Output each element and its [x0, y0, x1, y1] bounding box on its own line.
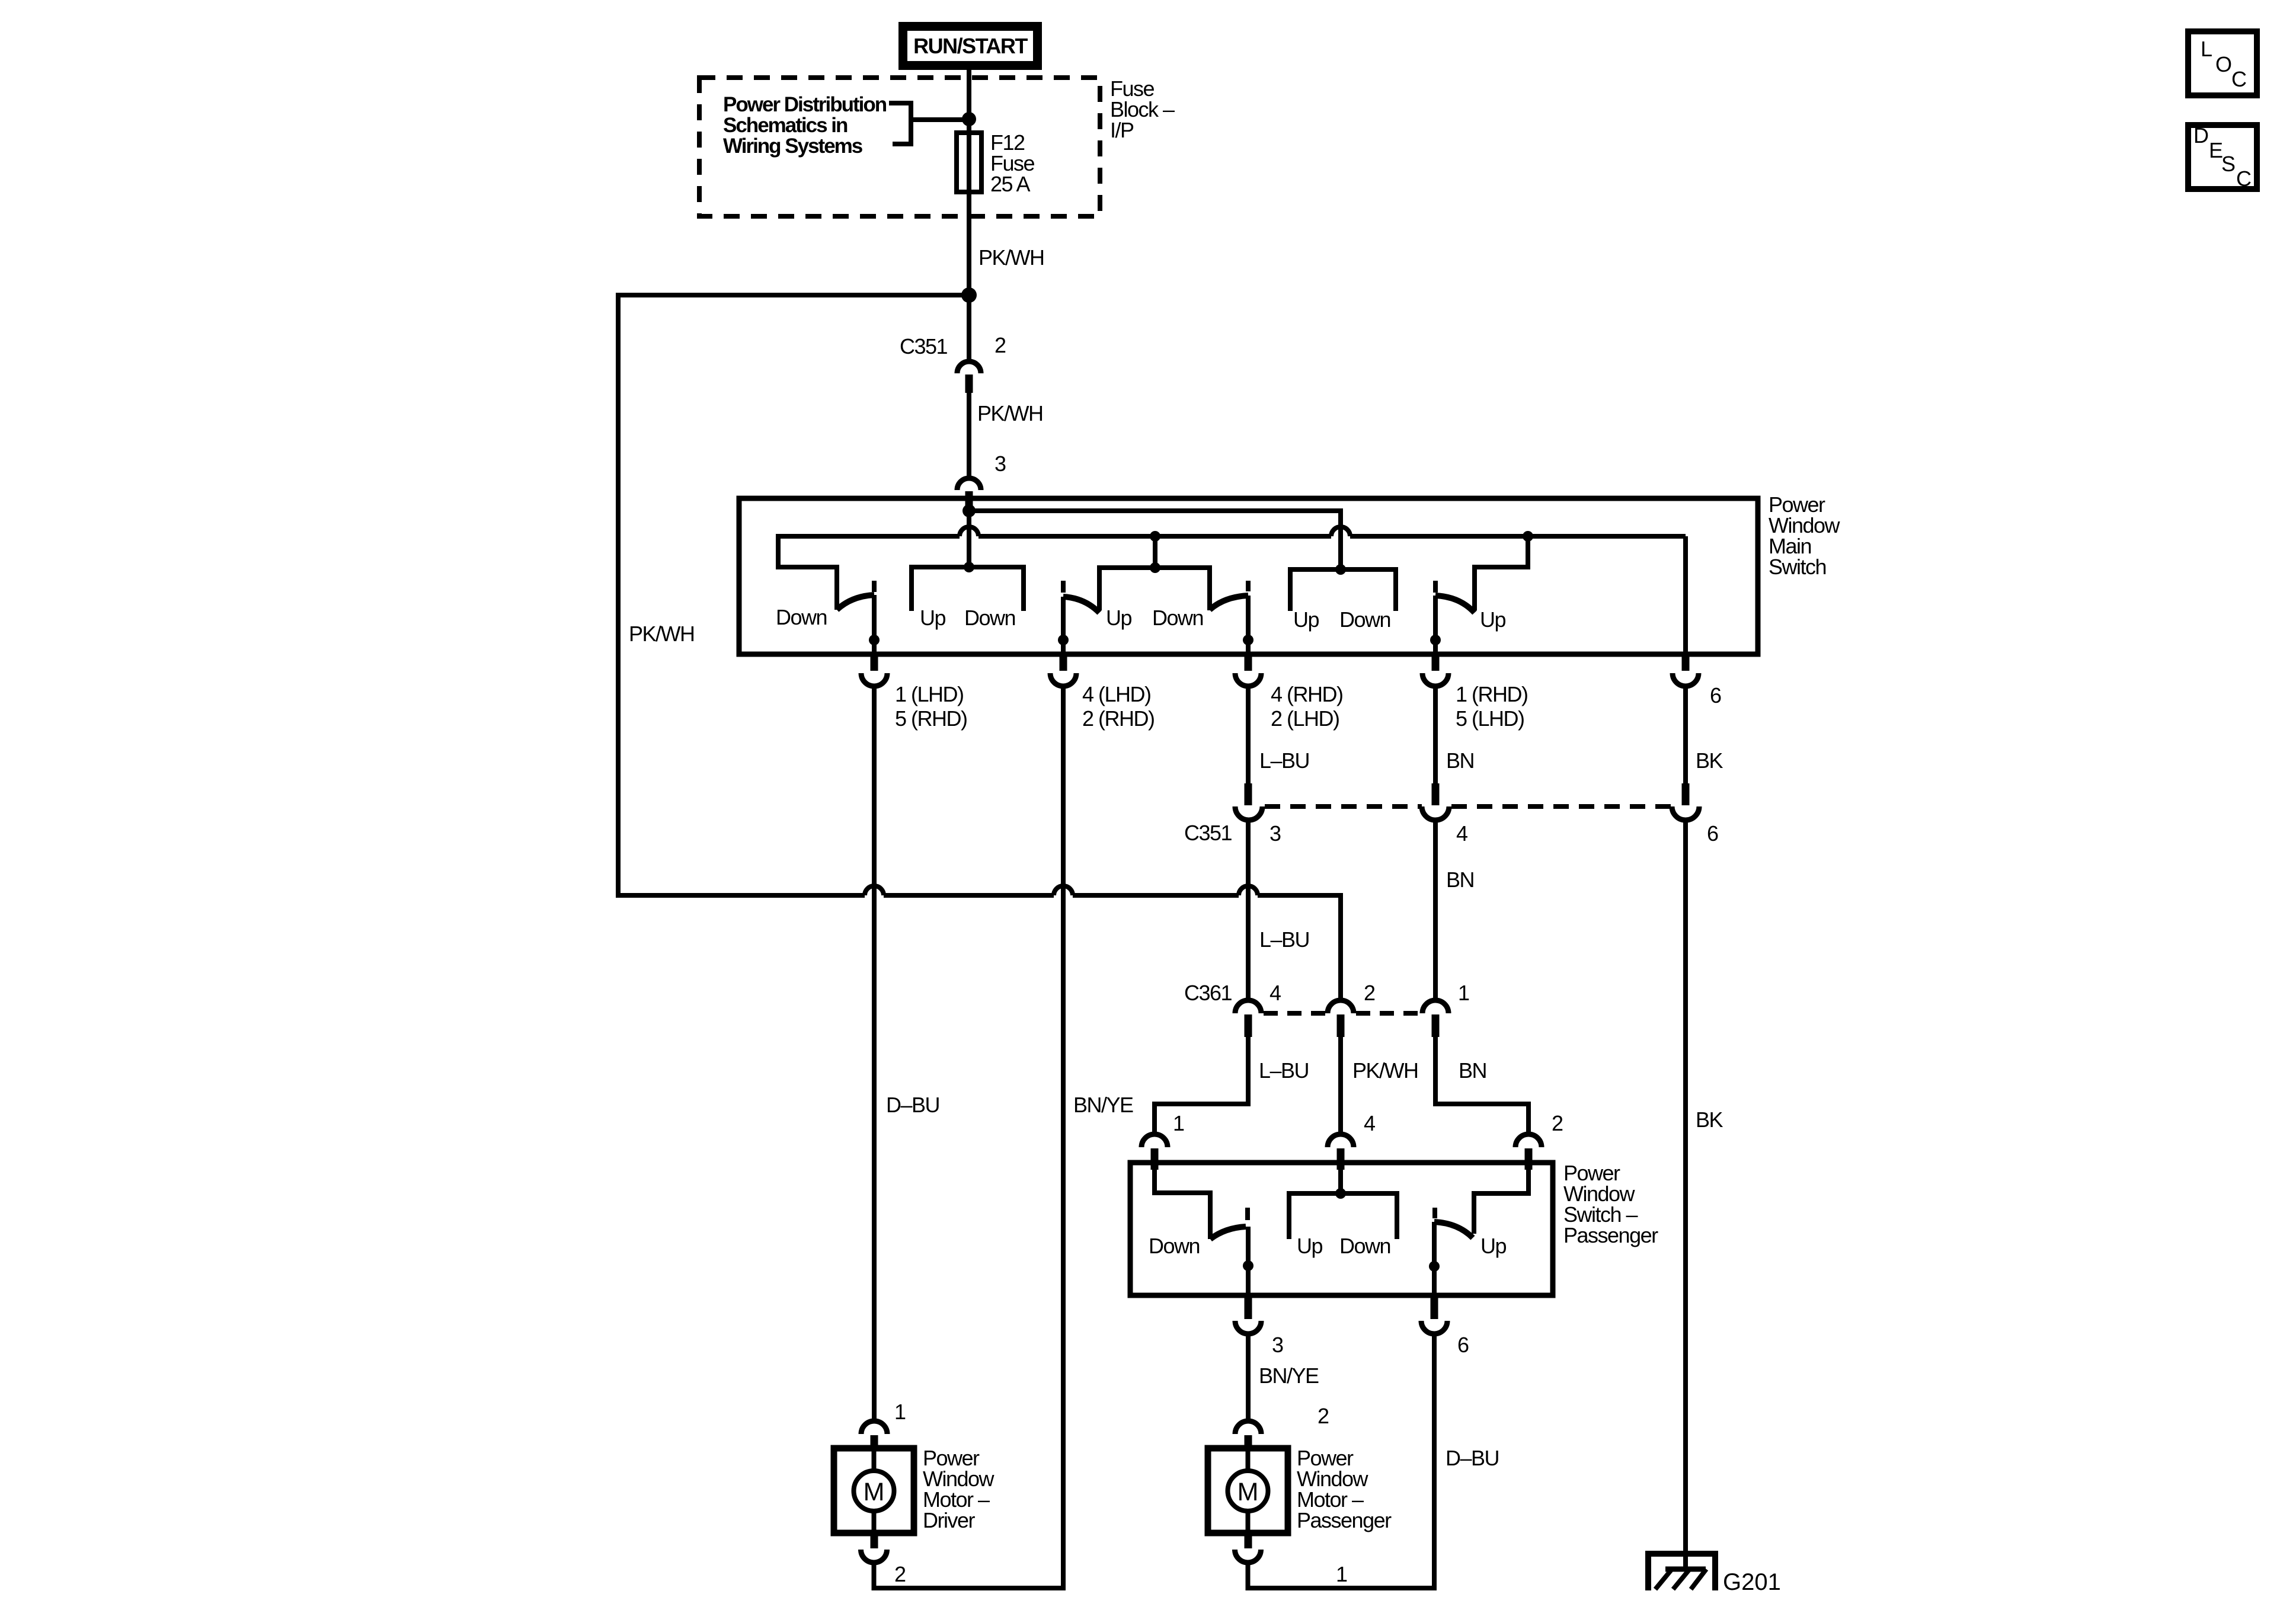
label Power Window Motor - Passenger — [1297, 1446, 1392, 1532]
wire passenger col3 inside box — [1246, 1227, 1251, 1295]
wire passenger pin2 staircase — [1474, 1170, 1528, 1234]
wire passenger pin4 feed — [1338, 1170, 1343, 1193]
svg-text:L–BU: L–BU — [1259, 1058, 1309, 1083]
svg-text:Up: Up — [920, 606, 945, 630]
svg-text:1 (RHD): 1 (RHD) — [1456, 682, 1528, 706]
svg-text:L: L — [2201, 37, 2212, 61]
svg-text:BN/YE: BN/YE — [1259, 1363, 1319, 1388]
contact tick col3 — [1246, 581, 1251, 591]
label Power Window Main Switch — [1769, 492, 1841, 579]
svg-text:2 (LHD): 2 (LHD) — [1271, 706, 1339, 731]
wire staircase net B to driver down switch — [778, 534, 837, 610]
power window switch passenger box — [1130, 1163, 1553, 1295]
wire PK/WH C361-2 to passenger pin4 — [1338, 1037, 1343, 1135]
svg-text:C361: C361 — [1184, 981, 1232, 1005]
svg-text:Down: Down — [1149, 1234, 1200, 1258]
connector driver motor pin 2 — [861, 1533, 906, 1586]
svg-text:4: 4 — [1456, 821, 1467, 846]
svg-text:Up: Up — [1106, 606, 1131, 630]
svg-text:Driver: Driver — [923, 1508, 976, 1532]
svg-text:25 A: 25 A — [990, 172, 1031, 196]
node: net A junction — [962, 504, 976, 517]
svg-text:D–BU: D–BU — [1446, 1446, 1499, 1470]
svg-text:Passenger: Passenger — [1563, 1223, 1658, 1247]
wire passenger col6 inside box — [1432, 1222, 1437, 1295]
svg-text:L–BU: L–BU — [1259, 748, 1309, 773]
svg-text:3: 3 — [994, 452, 1006, 476]
pin labels below main switch — [895, 682, 1721, 731]
wire BN C361-1 to passenger pin2 — [1435, 1037, 1528, 1135]
wire net A horizontal — [969, 508, 1341, 513]
connector passenger motor pin 2 — [1235, 1404, 1329, 1449]
svg-text:1: 1 — [1336, 1562, 1347, 1586]
node col4 — [1430, 635, 1441, 645]
switch blade passenger Down — [1210, 1227, 1246, 1239]
wire col2 inside box — [1061, 597, 1066, 654]
svg-text:Down: Down — [1339, 607, 1390, 632]
svg-text:4: 4 — [1364, 1111, 1375, 1135]
wire BN/YE passenger pin3 to motor — [1246, 1334, 1251, 1420]
node on net B feeding up-contact of switch 5 — [1523, 531, 1533, 542]
bracket Up/Down pair 3 — [1290, 569, 1396, 611]
svg-text:Down: Down — [1339, 1234, 1390, 1258]
switch blade col2 — [1063, 597, 1099, 613]
connector C361 row pins 4 2 1 — [1184, 981, 1469, 1037]
connector pin 3 main switch — [957, 452, 1006, 510]
svg-text:3: 3 — [1272, 1333, 1283, 1357]
wire passenger pin1 staircase — [1155, 1170, 1210, 1239]
svg-text:S: S — [2221, 152, 2235, 176]
svg-text:4 (RHD): 4 (RHD) — [1271, 682, 1343, 706]
svg-text:Down: Down — [1152, 606, 1203, 630]
svg-text:I/P: I/P — [1110, 118, 1134, 142]
svg-text:Up: Up — [1297, 1234, 1322, 1258]
connector C351 pin 2 — [900, 333, 1006, 393]
power window motor passenger — [1208, 1448, 1288, 1533]
svg-text:BK: BK — [1696, 748, 1723, 773]
wire col3 inside box — [1246, 596, 1251, 654]
connector C351 row pins 3 4 6 — [1184, 783, 1718, 846]
node bracket3 feed — [1335, 564, 1346, 575]
svg-text:6: 6 — [1710, 683, 1721, 708]
wire branch to left riser — [618, 293, 969, 297]
svg-text:1: 1 — [894, 1400, 906, 1424]
svg-text:1 (LHD): 1 (LHD) — [895, 682, 964, 706]
svg-text:Power Distribution: Power Distribution — [723, 93, 887, 116]
contact tick col2 — [1061, 581, 1066, 593]
svg-text:PK/WH: PK/WH — [629, 622, 695, 646]
connector driver motor pin 1 — [861, 1400, 906, 1449]
svg-text:2: 2 — [894, 1562, 906, 1586]
switch blade passenger Up — [1434, 1222, 1473, 1238]
wire C351-2 to pin3 PK/WH — [967, 393, 971, 478]
LOC box — [2188, 31, 2257, 95]
svg-text:1: 1 — [1458, 981, 1469, 1005]
node col1 — [869, 635, 880, 645]
svg-text:Switch: Switch — [1769, 555, 1826, 579]
node bracket1 feed — [964, 562, 974, 572]
node on net B feeding bracket3 — [1150, 531, 1160, 542]
bracket from note to wire — [889, 101, 967, 146]
svg-text:RUN/START: RUN/START — [913, 34, 1028, 58]
power window main switch box — [739, 498, 1758, 654]
bracket Up/Down passenger — [1289, 1193, 1397, 1239]
svg-text:1: 1 — [1173, 1111, 1184, 1135]
connector pins passenger switch bottom 3 6 — [1235, 1295, 1469, 1357]
svg-text:O: O — [2215, 52, 2231, 76]
node bracket2 feed — [1150, 562, 1160, 573]
svg-text:3: 3 — [1269, 821, 1281, 846]
wire col3 L-BU to C351-3 — [1246, 686, 1251, 786]
switch blade driver Down — [837, 595, 874, 610]
svg-text:Up: Up — [1480, 1234, 1506, 1258]
wire left PK/WH riser — [616, 293, 621, 898]
node passenger bracket feed — [1335, 1188, 1346, 1199]
wire net B (ground bus) with hops — [778, 527, 1686, 536]
wire staircase net B to up contact — [1475, 534, 1528, 610]
label F12 Fuse 25 A — [990, 130, 1035, 196]
label Power Window Motor - Driver — [923, 1446, 995, 1532]
ground G201 — [1648, 1554, 1781, 1595]
svg-text:2: 2 — [994, 333, 1006, 357]
bracket Up/Down pair 1 — [912, 567, 1024, 611]
connector passenger motor pin 1 — [1235, 1533, 1348, 1586]
svg-text:6: 6 — [1457, 1333, 1469, 1357]
contact tick passenger Up — [1432, 1208, 1437, 1218]
svg-text:C: C — [2231, 67, 2246, 91]
wire BN C351-4 to C361-1 — [1433, 821, 1438, 1001]
wire col4 BN to C351-4 — [1433, 686, 1438, 786]
svg-text:C: C — [2236, 167, 2251, 191]
svg-text:Passenger: Passenger — [1297, 1508, 1392, 1532]
label Fuse Block - I/P — [1110, 76, 1175, 142]
connector pins passenger switch top 1 4 2 — [1141, 1111, 1563, 1170]
wire RUN/START to fuse F12 — [967, 65, 971, 361]
svg-text:2: 2 — [1364, 981, 1375, 1005]
power source RUN/START box — [903, 27, 1038, 66]
svg-text:E: E — [2209, 138, 2223, 162]
DESC box — [2188, 123, 2257, 191]
svg-text:C351: C351 — [1184, 821, 1232, 845]
svg-text:G201: G201 — [1723, 1569, 1781, 1595]
svg-text:2: 2 — [1552, 1111, 1563, 1135]
switch blade col4 Up — [1435, 596, 1475, 613]
svg-text:Up: Up — [1293, 607, 1319, 632]
svg-text:PK/WH: PK/WH — [978, 245, 1044, 270]
svg-text:BN: BN — [1459, 1058, 1486, 1083]
wire bracket2 feed from net B — [1153, 536, 1157, 568]
svg-text:M: M — [864, 1478, 885, 1506]
connector pins below main switch — [861, 654, 1699, 686]
wire driver motor pin2 to BN/YE riser — [872, 1563, 877, 1590]
node: main junction — [961, 287, 977, 303]
svg-text:2 (RHD): 2 (RHD) — [1082, 706, 1155, 731]
svg-text:Wiring Systems: Wiring Systems — [723, 135, 863, 158]
svg-text:4 (LHD): 4 (LHD) — [1082, 682, 1151, 706]
contact tick driver Down — [872, 581, 877, 592]
svg-text:BN/YE: BN/YE — [1073, 1093, 1133, 1117]
svg-text:BN: BN — [1446, 868, 1474, 892]
svg-text:2: 2 — [1318, 1404, 1329, 1428]
svg-text:BN: BN — [1446, 748, 1474, 773]
node col3 — [1243, 635, 1253, 645]
wire switch output col1 — [872, 595, 877, 654]
wire PK/WH horizontal with hops to C361-2 — [616, 886, 1343, 1001]
node col2 — [1058, 635, 1069, 645]
svg-text:C351: C351 — [900, 334, 948, 359]
wire BK C351-6 to ground — [1683, 821, 1688, 1570]
wire col5 BK to C351-6 — [1683, 686, 1688, 786]
wire col1 D-BU to driver motor — [872, 686, 877, 1420]
svg-text:5 (LHD): 5 (LHD) — [1456, 706, 1524, 731]
node: junction in fuse block — [962, 112, 976, 126]
contact tick passenger Down — [1245, 1208, 1250, 1220]
node passenger col6 — [1429, 1261, 1440, 1272]
svg-text:Up: Up — [1480, 607, 1505, 632]
contact tick col4 — [1433, 581, 1438, 593]
wire passenger motor pin1 to D-BU riser — [1246, 1563, 1251, 1590]
fuse F12 25 A — [957, 133, 981, 192]
svg-text:PK/WH: PK/WH — [1352, 1058, 1418, 1083]
svg-text:4: 4 — [1269, 981, 1281, 1005]
node passenger col3 — [1243, 1260, 1253, 1271]
fuse block I/P dashed box — [699, 78, 1100, 216]
svg-text:D: D — [2193, 123, 2208, 148]
svg-text:Schematics in: Schematics in — [723, 114, 848, 137]
wire net A drop to bracket2 — [967, 511, 971, 567]
bracket Up/Down pair 2 — [1099, 568, 1210, 610]
wire L-BU C351-3 to C361-4 — [1246, 821, 1251, 1001]
svg-text:BK: BK — [1696, 1108, 1723, 1132]
power window motor driver — [834, 1448, 914, 1533]
wire col5 ground inside box — [1683, 536, 1688, 654]
switch blade col3 — [1210, 596, 1248, 610]
wire D-BU passenger pin6 riser — [1432, 1334, 1437, 1590]
reference note Power Distribution Schematics in Wiring Systems — [723, 93, 887, 158]
svg-text:PK/WH: PK/WH — [977, 401, 1043, 425]
svg-text:Down: Down — [964, 606, 1015, 630]
svg-text:5 (RHD): 5 (RHD) — [895, 706, 967, 731]
wire col4 inside box — [1433, 596, 1438, 654]
wire L-BU C361-4 to passenger pin1 — [1155, 1037, 1248, 1135]
svg-text:6: 6 — [1707, 821, 1718, 846]
svg-text:M: M — [1237, 1478, 1259, 1506]
svg-text:D–BU: D–BU — [886, 1093, 939, 1117]
wire labels below C361 — [1259, 1058, 1486, 1083]
wire net A drop to bracket4 — [1338, 508, 1343, 569]
svg-text:Down: Down — [776, 605, 827, 629]
wire col2 BN/YE riser — [1061, 686, 1066, 1590]
svg-text:L–BU: L–BU — [1259, 927, 1309, 952]
label Power Window Switch - Passenger — [1563, 1161, 1658, 1247]
